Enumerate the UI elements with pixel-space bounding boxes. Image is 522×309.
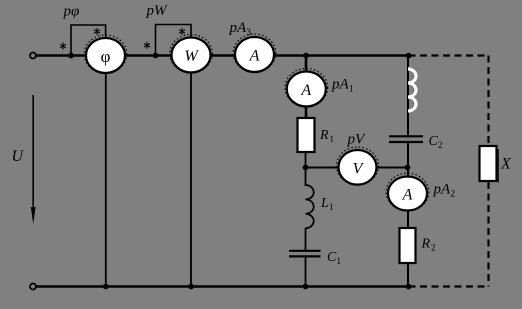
svg-text:R: R [421,237,431,252]
wire A2 to R2 [407,210,409,229]
terminal top left [30,53,36,59]
inductor L2 white coil [408,68,416,112]
element X [480,146,499,183]
wire C1 to bottom rail [305,256,307,286]
phase meter U1 phi [84,35,127,73]
ammeter pA3 [233,34,276,72]
U source arrow [31,95,36,224]
svg-text:2: 2 [438,140,443,150]
wire C2 to node [407,142,409,178]
asterisk W wire [144,42,150,49]
svg-text:L: L [320,196,329,211]
svg-text:C: C [429,134,439,149]
capacitor C2 [389,136,423,142]
wire W voltage bracket [156,25,192,56]
wire R1 to node [305,152,307,186]
wire phi meter down [105,72,107,287]
svg-text:2: 2 [431,243,436,253]
svg-text:pφ: pφ [63,4,80,20]
resistor R2 [400,228,416,263]
svg-text:X: X [500,156,512,173]
node junction W bottom [188,284,194,290]
wire top rail [36,54,409,56]
svg-text:pW: pW [146,3,169,19]
node junction right top [406,53,412,59]
node junction right bottom [406,284,412,290]
node junction C1 bottom [303,284,309,290]
svg-text:pA: pA [433,182,452,198]
svg-text:A: A [300,82,311,99]
terminal bottom left [30,284,36,290]
svg-text:R: R [319,128,329,143]
voltmeter pV [337,147,379,185]
node junction phi bottom [103,284,109,290]
wire right branch top [407,56,409,137]
svg-text:1: 1 [349,84,354,94]
svg-text:C: C [327,250,337,265]
wire mid branch to V [306,167,408,169]
dashed wire right vertical [487,56,489,287]
wire bottom rail [36,285,409,287]
svg-text:φ: φ [101,47,111,66]
svg-text:A: A [249,48,260,65]
wire phi voltage bracket [71,25,106,56]
svg-text:1: 1 [337,256,342,266]
svg-text:1: 1 [330,134,335,144]
svg-text:U: U [12,148,25,165]
wire L1 to C1 [305,228,307,250]
dashed wire top right [409,54,490,56]
svg-text:2: 2 [451,189,456,199]
ammeter pA2 [386,173,429,211]
node junction pphi [68,53,74,59]
svg-text:pA: pA [229,20,248,36]
asterisk phi coil [94,28,100,35]
asterisk W coil [179,28,185,35]
ammeter pA1 [285,69,328,107]
svg-text:A: A [402,187,413,204]
dashed wire bottom right [409,285,490,287]
capacitor C1 [289,251,321,257]
asterisk phi wire [60,43,66,50]
svg-text:pV: pV [347,132,367,148]
svg-text:1: 1 [329,202,334,212]
node junction pW [153,53,159,59]
node junction V/C2 [405,165,411,171]
svg-text:3: 3 [247,27,252,37]
wire branch A1 top [305,56,308,74]
wattmeter U2 W [170,35,213,73]
inductor L1 [306,185,314,228]
wire R2 to bottom rail [407,263,409,287]
wire W meter down [190,72,192,287]
wire A1 to R1 [305,106,308,120]
node junction A1 branch [303,53,309,59]
svg-text:pA: pA [331,77,350,93]
svg-text:W: W [184,48,199,65]
node junction R1/V [303,165,309,171]
resistor R1 [298,118,315,152]
